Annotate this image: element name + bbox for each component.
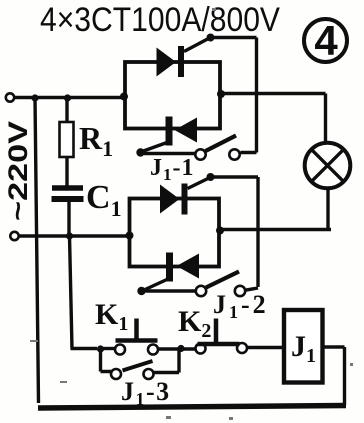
svg-text:4×3CT100A/800V: 4×3CT100A/800V	[40, 1, 280, 39]
svg-text:4: 4	[314, 17, 338, 64]
svg-text:J1-2: J1-2	[213, 290, 269, 322]
svg-text:~220V: ~220V	[3, 121, 33, 221]
svg-text:J1-3: J1-3	[121, 377, 171, 409]
svg-text:J1-1: J1-1	[150, 155, 195, 184]
